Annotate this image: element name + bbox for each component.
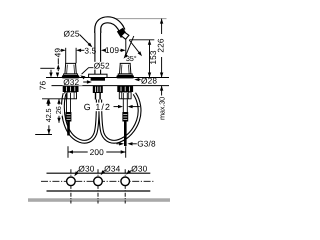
svg-text:Ø30: Ø30 — [78, 164, 94, 174]
svg-text:109: 109 — [105, 45, 120, 55]
svg-text:42.5: 42.5 — [44, 109, 53, 123]
svg-text:3.5: 3.5 — [84, 45, 96, 55]
svg-text:Ø28: Ø28 — [141, 75, 157, 85]
svg-text:Ø34: Ø34 — [104, 164, 120, 174]
svg-text:Ø52: Ø52 — [94, 61, 110, 71]
svg-text:49: 49 — [52, 48, 62, 58]
svg-text:G3/8: G3/8 — [137, 139, 156, 149]
svg-text:G 1/2: G 1/2 — [84, 102, 111, 112]
svg-text:Ø30: Ø30 — [131, 164, 147, 174]
svg-text:76: 76 — [38, 81, 48, 91]
svg-text:226: 226 — [156, 38, 166, 53]
svg-text:Ø32: Ø32 — [63, 77, 79, 87]
svg-text:max.30: max.30 — [157, 97, 166, 120]
svg-text:26: 26 — [54, 106, 63, 114]
svg-text:Ø25: Ø25 — [64, 29, 80, 39]
svg-text:35°: 35° — [126, 54, 137, 63]
svg-text:200: 200 — [90, 147, 105, 157]
